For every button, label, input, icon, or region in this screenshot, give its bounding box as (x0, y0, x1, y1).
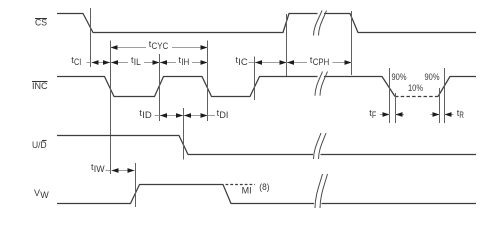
svg-text:R: R (459, 110, 464, 120)
label U/D signal name (32, 140, 47, 150)
svg-text:IW: IW (94, 164, 105, 174)
wire VW waveform after break (322, 203, 477, 205)
dimension tR arrows (431, 112, 454, 117)
svg-text:IH: IH (181, 57, 189, 67)
dimension tIL arrow (111, 60, 160, 65)
label INC signal name (32, 81, 48, 91)
dimension tCYC arrow line (111, 45, 208, 50)
tick at U/D falling edge (183, 108, 185, 160)
break in INC line (315, 72, 328, 96)
svg-text:INC: INC (32, 81, 48, 91)
dashed MI level line on VW (226, 184, 256, 186)
wire U/D waveform after break (321, 154, 477, 156)
svg-text:CPH: CPH (313, 57, 330, 67)
wire INC waveform after break (324, 77, 395, 97)
tick at INC 90% fall crossing (389, 68, 391, 123)
svg-text:90%: 90% (392, 72, 407, 82)
tick at tIC left reference (INC rise) (254, 57, 256, 101)
dimension tID arrow (155, 113, 184, 118)
wire INC dashed 10% low segment (395, 96, 438, 98)
tick at INC 90% rise crossing (444, 68, 446, 123)
svg-text:U/D: U/D (32, 140, 47, 150)
tick at CS rising edge (286, 14, 288, 76)
wire VW waveform (57, 185, 314, 204)
label CS signal name (35, 18, 47, 28)
tick at CS second falling edge (351, 11, 353, 75)
svg-text:10%: 10% (408, 83, 423, 93)
dimension tCI arrow (87, 60, 111, 65)
label VW signal name (34, 188, 49, 200)
dimension tF arrows (380, 112, 404, 117)
tick at INC first falling edge (long, down to tIW row) (110, 41, 112, 175)
svg-text:CI: CI (74, 57, 81, 67)
dimension tDI arrow (184, 113, 215, 118)
wire INC rising edge from 10% level (438, 77, 476, 97)
wire CS waveform (57, 14, 318, 33)
break in CS line (314, 11, 327, 36)
tick at CS first falling edge (90, 8, 92, 67)
svg-text:F: F (372, 110, 377, 120)
break in U/D line (314, 133, 327, 159)
wire CS waveform after break (324, 14, 476, 33)
break in VW line (315, 174, 328, 208)
tick at VW rising edge (135, 163, 137, 207)
svg-text:W: W (40, 190, 49, 200)
tick at INC 10% fall corner (395, 93, 397, 123)
wire INC waveform (57, 77, 318, 97)
svg-text:MI: MI (242, 185, 252, 195)
tick at INC first rising edge (159, 54, 161, 121)
tick at INC 10% rise corner (439, 88, 441, 123)
wire U/D waveform (57, 136, 313, 155)
dimension tCPH arrow (287, 60, 352, 65)
svg-text:(8): (8) (259, 182, 269, 192)
svg-text:IL: IL (134, 57, 141, 67)
dimension tIH arrow (160, 60, 208, 65)
dimension tIC arrow (249, 60, 287, 65)
tick at INC second falling edge (207, 41, 209, 122)
dimension tIW arrow (106, 168, 135, 173)
svg-text:90%: 90% (425, 72, 440, 82)
svg-text:DI: DI (219, 110, 228, 120)
svg-text:V: V (34, 188, 40, 198)
svg-text:ID: ID (142, 110, 152, 120)
svg-text:CYC: CYC (152, 41, 169, 51)
svg-text:IC: IC (238, 57, 248, 67)
